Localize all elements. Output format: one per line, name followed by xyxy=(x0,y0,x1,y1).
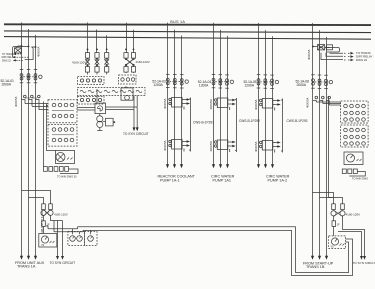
motor feeder 2 wires xyxy=(214,23,228,165)
svg-text:2000A: 2000A xyxy=(297,83,307,87)
bus line L1 xyxy=(4,23,371,26)
left incoming feeder wires xyxy=(22,22,36,256)
right relay stack box 1 (dashed) xyxy=(341,101,369,123)
svg-text:4000/5A: 4000/5A xyxy=(307,49,311,60)
left meter box M1 xyxy=(56,151,75,164)
text CIRC WATER PUMP 1A-2 xyxy=(266,175,290,183)
G box feeder A xyxy=(95,89,106,114)
TO SYN right arrowheads xyxy=(360,256,366,260)
svg-text:VS: VS xyxy=(331,246,335,249)
motor feeder 2 arrowheads xyxy=(212,164,229,168)
svg-text:TO SYN CIRCUIT: TO SYN CIRCUIT xyxy=(353,261,375,265)
motor feeder 3 wires xyxy=(259,23,273,165)
text FROM UNIT AUX TRANS 1A xyxy=(15,261,45,269)
right fuse row xyxy=(342,169,368,181)
right PT tap wires xyxy=(313,193,343,204)
CT cluster feeder2 lower xyxy=(209,140,236,152)
svg-text:1F: 1F xyxy=(337,223,340,227)
PT feeder A relay row band 3 (dashed) xyxy=(78,97,105,105)
svg-text:PUMP 1A-2: PUMP 1A-2 xyxy=(268,178,288,182)
breaker 52-1A-08 xyxy=(311,75,332,89)
wires G box to TO SYN center xyxy=(106,107,138,129)
PT feeder A fuses bottom xyxy=(85,65,108,75)
svg-text:4160-120V: 4160-120V xyxy=(346,213,361,217)
right feeder arrowheads xyxy=(311,256,328,260)
TO SYN right wires xyxy=(338,216,365,257)
motor feeder 3 arrowheads xyxy=(257,164,274,168)
text REACTOR COOLANT PUMP 1A-1 xyxy=(158,175,196,183)
svg-text:TO SYN CIRCUIT: TO SYN CIRCUIT xyxy=(123,132,149,136)
long bottom tie line (double, wraps around FROM START UP box) xyxy=(48,227,353,276)
svg-text:CWS-B-1P292: CWS-B-1P292 xyxy=(239,119,260,123)
left PT secondary fuse xyxy=(42,215,50,233)
right aux meter box xyxy=(344,152,363,165)
CT cluster feeder2 upper xyxy=(209,98,236,110)
svg-text:4000/5A: 4000/5A xyxy=(163,98,167,109)
PT feeder B fuses bottom xyxy=(124,65,136,73)
labels TO BUS DIFF RELAY rows xyxy=(2,53,16,62)
cable bracket feeder3 xyxy=(281,99,283,153)
text CIRC WATER PUMP 1A1 xyxy=(211,175,235,183)
PT feeder A wires xyxy=(87,23,108,53)
label 52-1A-04 1200A xyxy=(198,80,212,88)
PT feeder B fuses top xyxy=(124,53,136,59)
PT feeder B lower box xyxy=(121,86,133,100)
svg-text:4000/5A: 4000/5A xyxy=(254,99,258,110)
transformer feeder A xyxy=(97,114,116,131)
svg-text:4160-120V: 4160-120V xyxy=(54,212,68,216)
PT feeder B windings xyxy=(125,58,134,66)
CT cluster feeder1 upper xyxy=(163,98,190,110)
text FROM START UP TRANS 1B xyxy=(303,261,334,269)
left top CT / bus diff relay taps xyxy=(12,45,36,61)
right relay stack box 2 (dashed) xyxy=(341,125,369,147)
svg-text:4000/5A: 4000/5A xyxy=(37,46,41,57)
svg-text:TO TRANS: TO TRANS xyxy=(2,53,14,56)
CT cluster feeder1 lower xyxy=(163,140,190,152)
right PT windings xyxy=(331,210,345,216)
svg-text:VS: VS xyxy=(41,244,45,247)
left relay stack box 1 (dashed) xyxy=(48,100,77,123)
svg-text:TO ANN DWG: TO ANN DWG xyxy=(352,178,368,181)
left CT cluster 2 xyxy=(14,95,48,110)
right meter box VS (dashed) xyxy=(329,236,346,249)
right stack down wire xyxy=(329,96,333,198)
cable bracket feeder1 xyxy=(189,98,191,152)
svg-text:CWS-B-1P291: CWS-B-1P291 xyxy=(193,121,214,125)
left PT windings xyxy=(41,210,53,216)
PT feeder B relay rows (dashed) xyxy=(119,75,137,84)
svg-text:DIFF RELAY: DIFF RELAY xyxy=(2,56,16,59)
wires PT to meters and tie xyxy=(46,215,63,231)
PT feeder B wires xyxy=(125,23,134,53)
svg-text:CWS-B-1P293: CWS-B-1P293 xyxy=(287,119,308,123)
breaker 52-1A-04 xyxy=(212,75,234,89)
left feeder arrowheads xyxy=(20,256,37,260)
cable bracket feeder2 xyxy=(235,98,237,152)
CT cluster feeder3 upper xyxy=(254,99,281,111)
left meter box VS xyxy=(39,234,57,248)
svg-text:TRANS 1A: TRANS 1A xyxy=(17,264,36,268)
svg-text:4000/5A: 4000/5A xyxy=(254,141,258,152)
right CT cluster 2 xyxy=(306,96,341,108)
left dashed meter box A xyxy=(68,232,85,246)
TO SYN center arrowheads xyxy=(133,127,139,131)
wide relay row band 2 (dashed) xyxy=(78,88,146,96)
svg-text:DWG 22: DWG 22 xyxy=(2,60,12,62)
right PT fuses xyxy=(332,204,345,210)
breaker 52-1A-01 (left incoming) xyxy=(20,70,42,83)
svg-text:PUMP 1A1: PUMP 1A1 xyxy=(213,178,231,182)
svg-text:1200A: 1200A xyxy=(199,83,209,87)
svg-text:4160-120V: 4160-120V xyxy=(72,61,86,65)
left dashed meter box B xyxy=(85,232,98,246)
svg-text:TO SYN CIRCUIT: TO SYN CIRCUIT xyxy=(50,261,76,265)
svg-text:4000/5A: 4000/5A xyxy=(209,99,213,110)
svg-text:4000/5A: 4000/5A xyxy=(14,96,18,107)
svg-text:1200A: 1200A xyxy=(245,84,255,88)
PT feeder A relay row band 1 (dashed) xyxy=(78,77,105,85)
svg-text:4000/5A: 4000/5A xyxy=(209,141,213,152)
motor feeder 1 wires xyxy=(168,23,182,165)
left stack feed wires xyxy=(44,102,56,167)
left relay stack box 2 (dashed) xyxy=(48,125,77,147)
left PT tap wires xyxy=(22,191,51,204)
svg-text:TO ANN DWG 30: TO ANN DWG 30 xyxy=(57,176,77,179)
PT feeder A windings xyxy=(85,59,109,66)
motor feeder 1 arrowheads xyxy=(166,164,183,168)
svg-text:2000A: 2000A xyxy=(2,82,12,86)
svg-text:1200A: 1200A xyxy=(153,83,163,87)
PT feeder A fuses top xyxy=(85,53,108,59)
CT cluster feeder3 lower xyxy=(254,141,281,153)
svg-text:4000/5A: 4000/5A xyxy=(306,97,310,108)
label 52-1A-03 1200A xyxy=(152,80,166,88)
text TO TRANS DIFF RELAY DWG 22 xyxy=(356,51,373,62)
bus line L2 xyxy=(4,31,371,33)
bus line L3 xyxy=(4,37,371,40)
svg-text:BUS 1A: BUS 1A xyxy=(170,20,185,24)
wires stack to G box xyxy=(77,108,95,111)
breaker 52-1A-03 xyxy=(166,74,188,88)
label 52-1A-05 1200A xyxy=(244,80,257,88)
svg-text:4160-120V: 4160-120V xyxy=(136,60,150,64)
svg-text:TRANS 1B: TRANS 1B xyxy=(306,265,325,269)
right top CT cluster xyxy=(312,45,354,62)
left PT fuses xyxy=(42,204,53,210)
right incoming feeder wires xyxy=(313,23,327,256)
svg-text:4000/5A: 4000/5A xyxy=(163,140,167,151)
breaker 52-1A-05 xyxy=(257,75,279,89)
TO SYN CIRCUIT left wires xyxy=(58,221,63,257)
svg-text:PUMP 1A-1: PUMP 1A-1 xyxy=(160,178,180,182)
label 52-1A-01 2000A xyxy=(1,79,15,86)
svg-text:DWG 22: DWG 22 xyxy=(356,58,367,62)
right PT secondary fuse xyxy=(332,216,340,236)
left fuse row xyxy=(44,167,79,179)
label 52-1A-08 2000A xyxy=(296,79,310,87)
